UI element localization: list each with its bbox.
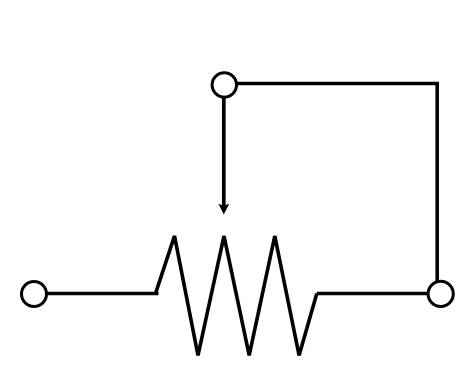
left terminal node (circle) bbox=[22, 282, 47, 307]
wiper arrow (line) bbox=[222, 96, 226, 206]
wire from top terminal over corner down to right terminal bbox=[237, 84, 437, 287]
wire from left terminal to resistor bbox=[40, 292, 159, 296]
top terminal node / wiper (circle) bbox=[212, 73, 236, 97]
wiper arrow (head) bbox=[218, 204, 229, 215]
right terminal node (circle) bbox=[428, 281, 453, 306]
wire from resistor to right terminal bbox=[317, 292, 434, 296]
resistor R (zigzag) bbox=[156, 236, 317, 355]
